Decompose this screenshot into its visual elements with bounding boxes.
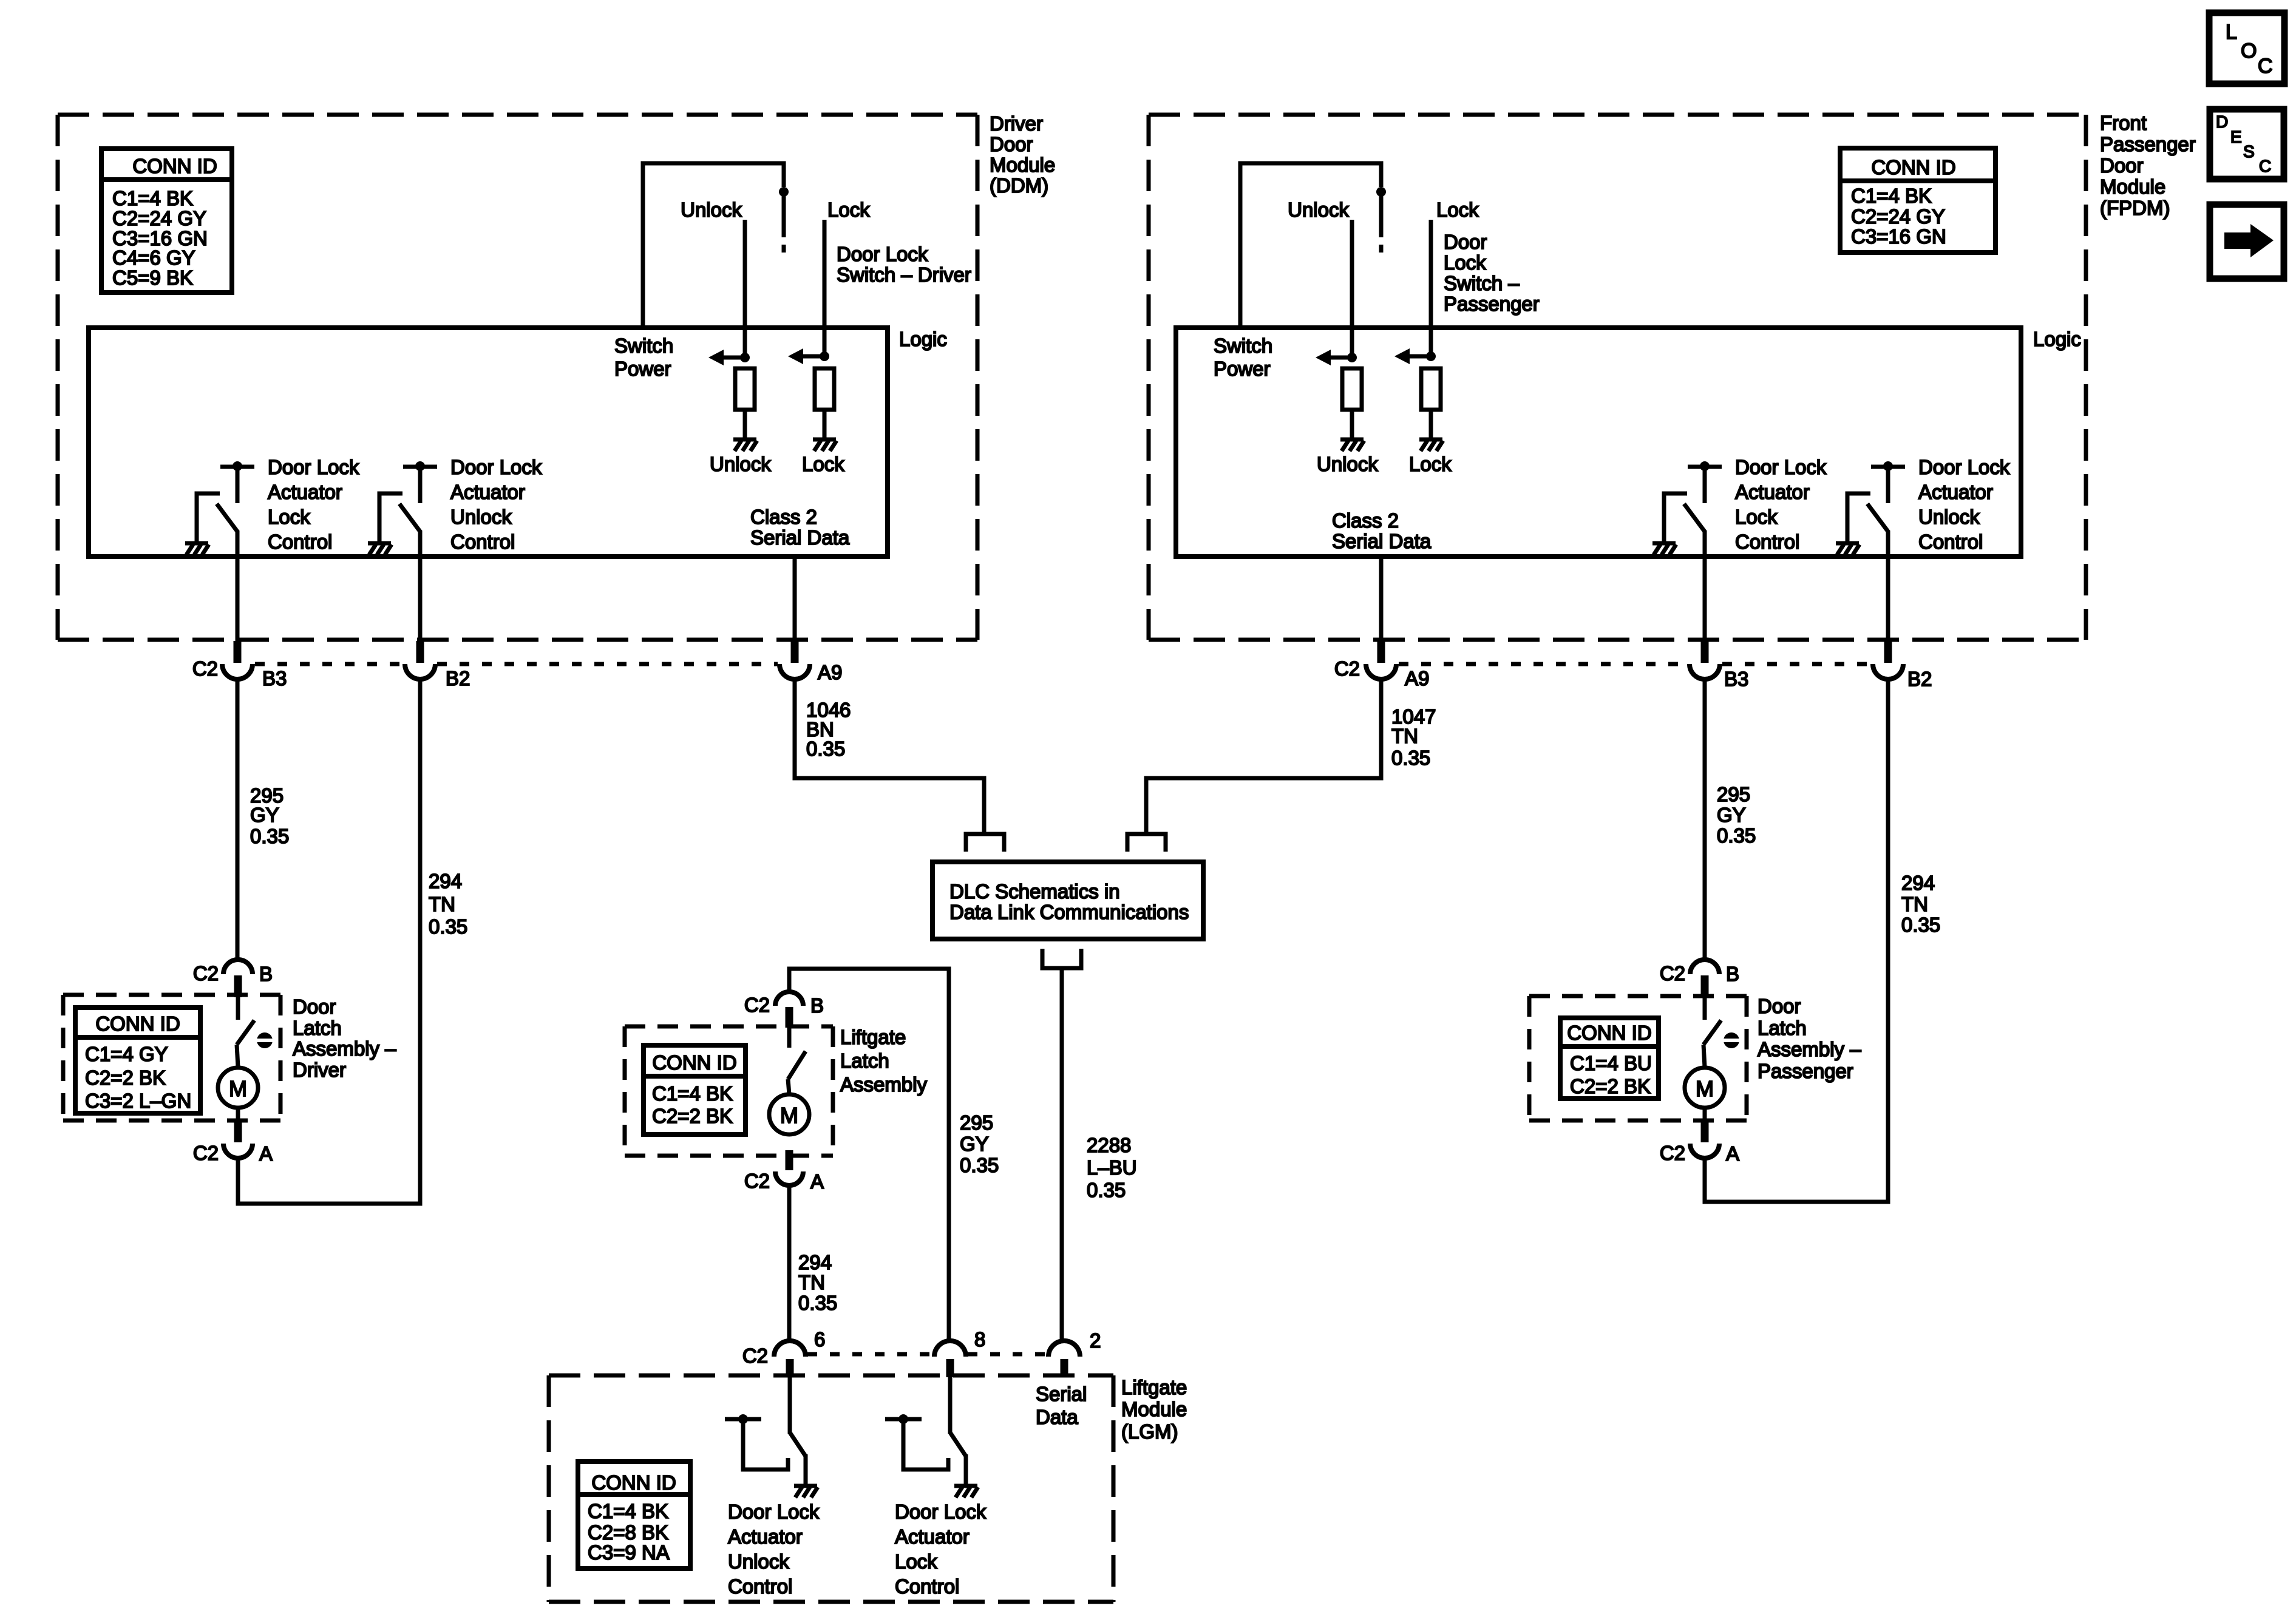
ground lock DDM (813, 439, 837, 451)
logic box DDM (89, 328, 888, 557)
wire 2288 L-BU serial to LGM (1060, 968, 1064, 1342)
svg-text:A9: A9 (1405, 667, 1429, 690)
svg-text:C2: C2 (742, 1344, 768, 1367)
svg-text:A: A (810, 1170, 824, 1193)
svg-text:Control: Control (450, 531, 515, 553)
label B3 (262, 667, 287, 690)
label Door Lock Actuator Lock Control LGM (895, 1500, 987, 1598)
connector dotted line FPDM (1399, 662, 1870, 666)
svg-text:C2: C2 (744, 994, 770, 1016)
label Lock (resistor) FPDM (1409, 453, 1452, 475)
connector pin A9 FPDM (1366, 641, 1396, 679)
switch latch driver (237, 997, 254, 1067)
svg-text:0.35: 0.35 (960, 1154, 999, 1176)
svg-text:Switch – Driver: Switch – Driver (837, 263, 971, 286)
svg-text:CONN ID: CONN ID (1871, 156, 1955, 178)
connector pin B3 DDM (222, 641, 253, 679)
svg-text:C2=8 BK: C2=8 BK (588, 1521, 668, 1544)
svg-text:TN: TN (429, 893, 455, 915)
arrow unlock sense DDM (708, 350, 750, 365)
svg-text:Latch: Latch (1758, 1017, 1807, 1039)
svg-text:TN: TN (1391, 725, 1418, 747)
svg-text:Door Lock: Door Lock (1735, 456, 1827, 478)
label Door Lock Actuator Unlock Control FPDM (1918, 456, 2010, 553)
label A9 FPDM (1405, 667, 1429, 690)
svg-text:Driver: Driver (293, 1059, 346, 1081)
svg-text:Lock: Lock (802, 453, 844, 475)
wire switch-power riser DDM (643, 163, 784, 327)
svg-text:C2=24 GY: C2=24 GY (1851, 205, 1945, 228)
svg-text:Unlock: Unlock (728, 1550, 789, 1573)
svg-text:6: 6 (814, 1328, 825, 1351)
svg-text:Liftgate: Liftgate (840, 1026, 906, 1048)
CONN ID table driver latch (75, 1008, 200, 1113)
svg-text:Door: Door (1758, 995, 1801, 1017)
label B2 (446, 667, 470, 690)
label B (liftgate latch) (810, 994, 824, 1017)
svg-text:Logic: Logic (2033, 328, 2081, 350)
svg-text:C2=2 BK: C2=2 BK (85, 1066, 166, 1089)
wire unlock contact FPDM (1350, 220, 1354, 358)
svg-text:Actuator: Actuator (268, 481, 342, 503)
svg-text:Latch: Latch (293, 1017, 342, 1039)
svg-text:Front: Front (2100, 112, 2147, 134)
wire class2 serial data DDM (793, 557, 797, 641)
svg-text:B3: B3 (262, 667, 287, 690)
label Door Lock Actuator Unlock Control LGM (728, 1500, 820, 1598)
svg-text:O: O (2241, 39, 2257, 63)
label Lock (resistor) DDM (802, 453, 844, 475)
switch rest stub DDM (782, 245, 786, 253)
svg-text:C1=4 BU: C1=4 BU (1570, 1052, 1652, 1074)
svg-text:CONN ID: CONN ID (132, 155, 217, 177)
label Door Latch Assembly - Driver (293, 995, 396, 1081)
svg-text:Serial Data: Serial Data (1332, 530, 1432, 552)
label Serial Data LGM (1036, 1383, 1087, 1428)
svg-text:Liftgate: Liftgate (1121, 1376, 1187, 1398)
label Switch Power FPDM (1214, 334, 1272, 380)
wire 295 GY driver (B3 to latch) (236, 679, 240, 960)
svg-text:B: B (1726, 963, 1739, 985)
svg-text:Actuator: Actuator (450, 481, 525, 503)
label B3 FPDM (1724, 668, 1748, 690)
node switch pivot FPDM (1376, 187, 1386, 197)
svg-text:0.35: 0.35 (1087, 1179, 1126, 1201)
label B (driver latch) (259, 963, 273, 985)
switch liftgate latch (788, 1026, 806, 1094)
svg-text:Data: Data (1036, 1406, 1078, 1428)
svg-text:8: 8 (974, 1328, 985, 1351)
svg-text:Switch: Switch (614, 334, 673, 357)
svg-text:Module: Module (1121, 1398, 1187, 1420)
wire latch A return driver (238, 1158, 423, 1204)
off-page bracket FPDM serial (1127, 834, 1166, 852)
svg-text:Lock: Lock (1735, 506, 1778, 528)
svg-text:C: C (2259, 157, 2271, 175)
off-page bracket LGM serial (1042, 949, 1081, 968)
ajar contact symbol passenger latch (1724, 1032, 1739, 1048)
svg-text:0.35: 0.35 (250, 825, 289, 847)
ajar contact symbol driver latch (257, 1032, 273, 1048)
svg-text:295: 295 (960, 1111, 993, 1134)
ground unlock DDM (733, 439, 757, 451)
transistor door-lock-actuator unlock control LGM (725, 1376, 818, 1497)
svg-text:Serial: Serial (1036, 1383, 1087, 1405)
svg-text:2: 2 (1090, 1329, 1101, 1352)
svg-text:L: L (2226, 21, 2237, 44)
svg-text:Door: Door (1444, 231, 1487, 253)
svg-text:C3=16 GN: C3=16 GN (1851, 225, 1946, 248)
svg-text:M: M (1696, 1076, 1714, 1101)
svg-text:C3=2 L–GN: C3=2 L–GN (85, 1090, 191, 1112)
svg-text:294: 294 (429, 870, 462, 892)
module LGM dashed outline (549, 1375, 1113, 1602)
CONN ID table FPDM (1840, 148, 1995, 253)
svg-text:Door: Door (2100, 154, 2144, 177)
CONN ID table DDM (101, 149, 232, 293)
label Liftgate Latch Assembly (840, 1026, 928, 1096)
svg-text:B2: B2 (1907, 668, 1932, 690)
svg-text:Passenger: Passenger (1758, 1060, 1853, 1082)
svg-text:C1=4 BK: C1=4 BK (112, 187, 193, 209)
CONN ID table passenger latch (1560, 1018, 1659, 1099)
label Lock (switch contact) DDM (827, 198, 870, 221)
wire unlock resistor to ground FPDM (1350, 410, 1354, 439)
label B (passenger latch) (1726, 963, 1739, 985)
svg-text:Driver: Driver (990, 112, 1043, 135)
svg-text:Module: Module (990, 154, 1055, 176)
resistor lock pull DDM (815, 368, 834, 410)
svg-text:0.35: 0.35 (806, 737, 845, 760)
svg-text:0.35: 0.35 (1391, 747, 1430, 769)
CONN ID table LGM (578, 1462, 690, 1568)
svg-text:C2: C2 (1334, 657, 1360, 680)
svg-text:Logic: Logic (899, 328, 947, 350)
svg-text:Switch: Switch (1214, 334, 1272, 357)
svg-text:A9: A9 (818, 661, 842, 683)
svg-text:A: A (1726, 1142, 1739, 1165)
svg-text:Door Lock: Door Lock (728, 1500, 820, 1523)
connector dotted line LGM (807, 1352, 1045, 1357)
label 295 GY 0.35 passenger (1717, 783, 1756, 847)
label Lock (switch contact) FPDM (1436, 198, 1479, 221)
svg-text:A: A (259, 1142, 273, 1165)
svg-text:D: D (2216, 112, 2228, 131)
svg-text:CONN ID: CONN ID (95, 1012, 180, 1035)
wire 294 TN liftgate (787, 1186, 792, 1342)
resistor lock pull FPDM (1421, 368, 1441, 410)
label A9 (818, 661, 842, 683)
svg-text:C2: C2 (193, 962, 219, 985)
svg-text:C2=24 GY: C2=24 GY (112, 207, 206, 229)
label 294 TN 0.35 passenger (1901, 872, 1940, 936)
label 2 (1090, 1329, 1101, 1352)
label 295 GY 0.35 liftgate (960, 1111, 999, 1176)
svg-text:Passenger: Passenger (1444, 293, 1540, 315)
svg-text:Control: Control (1735, 531, 1799, 553)
label A (passenger latch) (1726, 1142, 1739, 1165)
wire unlock resistor to ground DDM (743, 410, 747, 439)
svg-text:Latch: Latch (840, 1049, 889, 1072)
svg-text:Assembly: Assembly (840, 1073, 928, 1096)
svg-text:DLC Schematics in: DLC Schematics in (949, 880, 1120, 903)
transistor door-lock-actuator lock control DDM (185, 461, 254, 641)
svg-text:Lock: Lock (1444, 251, 1486, 274)
wire latch A return passenger (1705, 1158, 1890, 1202)
svg-text:Door Lock: Door Lock (450, 456, 542, 478)
connector pin B3 FPDM (1690, 641, 1720, 679)
label C2 (latch A passenger) (1660, 1142, 1685, 1164)
label Logic FPDM (2033, 328, 2081, 350)
svg-text:B: B (259, 963, 273, 985)
svg-text:(LGM): (LGM) (1121, 1420, 1178, 1443)
svg-text:C2: C2 (1660, 1142, 1685, 1164)
switch blade DDM (782, 192, 786, 237)
svg-text:294: 294 (798, 1251, 832, 1273)
svg-text:C2=2 BK: C2=2 BK (1570, 1075, 1651, 1097)
arrow lock sense DDM (788, 348, 829, 364)
ground lock FPDM (1419, 439, 1443, 451)
svg-text:M: M (229, 1076, 247, 1101)
svg-text:(DDM): (DDM) (990, 174, 1048, 197)
wire 1046 BN serial DDM (795, 679, 984, 834)
label Class 2 Serial Data DDM (750, 506, 850, 549)
svg-text:C5=9 BK: C5=9 BK (112, 266, 193, 289)
label 294 TN 0.35 driver (429, 870, 467, 938)
svg-text:Control: Control (895, 1575, 959, 1598)
icon LOC box (2209, 13, 2284, 84)
node switch pivot DDM (779, 187, 789, 197)
svg-text:C1=4 BK: C1=4 BK (652, 1082, 733, 1105)
label Door Latch Assembly - Passenger (1758, 995, 1861, 1082)
door latch assembly passenger dashed box (1529, 996, 1747, 1120)
label 8 (974, 1328, 985, 1351)
label Front Passenger Door Module (FPDM) (2100, 112, 2196, 219)
label 294 TN 0.35 liftgate (798, 1251, 837, 1314)
svg-text:2288: 2288 (1087, 1134, 1131, 1156)
label 1047 TN 0.35 (1391, 705, 1436, 769)
svg-text:0.35: 0.35 (429, 915, 467, 938)
transistor door-lock-actuator lock control LGM (885, 1376, 978, 1497)
svg-text:C3=9 NA: C3=9 NA (588, 1541, 670, 1564)
connector pin B2 DDM (405, 641, 435, 679)
label C2 (liftgate latch A) (744, 1170, 770, 1192)
icon DESC box (2210, 109, 2284, 179)
svg-text:Lock: Lock (1436, 198, 1479, 221)
svg-text:Unlock: Unlock (1288, 198, 1349, 221)
connector C2-A driver latch (223, 1122, 253, 1158)
svg-text:Power: Power (1214, 358, 1271, 380)
svg-text:B3: B3 (1724, 668, 1748, 690)
svg-text:B2: B2 (446, 667, 470, 690)
svg-text:0.35: 0.35 (1717, 824, 1756, 847)
ground unlock FPDM (1340, 439, 1364, 451)
label C2 (liftgate latch B) (744, 994, 770, 1016)
off-page bracket DDM serial (966, 834, 1004, 852)
motor M passenger latch (1685, 1068, 1725, 1108)
svg-text:(FPDM): (FPDM) (2100, 197, 2170, 219)
svg-text:TN: TN (798, 1271, 825, 1293)
svg-text:Door: Door (293, 995, 336, 1018)
svg-text:Unlock: Unlock (710, 453, 771, 475)
label 2288 L-BU 0.35 (1087, 1134, 1137, 1201)
svg-text:Control: Control (728, 1575, 792, 1598)
svg-text:Switch –: Switch – (1444, 272, 1520, 294)
svg-text:Actuator: Actuator (728, 1525, 803, 1548)
label Driver Door Module (DDM) (990, 112, 1055, 197)
svg-text:Door Lock: Door Lock (1918, 456, 2010, 478)
connector C2-A passenger latch (1690, 1122, 1719, 1158)
svg-text:Class 2: Class 2 (750, 506, 817, 528)
svg-text:C: C (2258, 55, 2273, 78)
label A (driver latch) (259, 1142, 273, 1165)
svg-text:C1=4 BK: C1=4 BK (588, 1500, 668, 1522)
svg-text:GY: GY (1717, 804, 1746, 826)
connector pin B2 FPDM (1873, 641, 1903, 679)
label Liftgate Module (LGM) (1121, 1376, 1187, 1443)
svg-text:Unlock: Unlock (1317, 453, 1378, 475)
connector pin 2 LGM (1048, 1341, 1080, 1377)
resistor unlock pull DDM (735, 368, 755, 410)
label Door Lock Actuator Lock Control FPDM (1735, 456, 1827, 553)
svg-text:TN: TN (1901, 893, 1928, 915)
svg-text:Door: Door (990, 133, 1033, 155)
svg-text:Module: Module (2100, 175, 2165, 198)
connector C2-A liftgate latch (775, 1150, 803, 1185)
label 295 GY 0.35 driver (250, 784, 289, 847)
svg-text:Class 2: Class 2 (1332, 509, 1399, 532)
svg-text:Unlock: Unlock (450, 506, 512, 528)
svg-text:CONN ID: CONN ID (652, 1051, 736, 1074)
label C2 (latch B passenger) (1660, 962, 1685, 985)
label Unlock (switch contact) DDM (681, 198, 742, 221)
wire 295 GY liftgate branch (789, 969, 949, 1342)
transistor door-lock-actuator unlock control FPDM (1836, 461, 1905, 641)
connector pin 6 LGM (774, 1341, 806, 1377)
wire lock resistor to ground DDM (823, 410, 827, 439)
svg-text:Passenger: Passenger (2100, 133, 2196, 155)
label C2 (latch A driver) (193, 1142, 219, 1164)
wire lock resistor to ground FPDM (1429, 410, 1433, 439)
svg-text:Door Lock: Door Lock (895, 1500, 987, 1523)
svg-text:Lock: Lock (827, 198, 870, 221)
svg-text:C2: C2 (744, 1170, 770, 1192)
svg-text:E: E (2230, 127, 2242, 146)
CONN ID table liftgate latch (644, 1045, 746, 1134)
svg-text:GY: GY (960, 1133, 989, 1155)
connector C2-B driver latch (223, 960, 253, 997)
svg-text:Control: Control (268, 531, 332, 553)
connector pin A9 DDM (779, 641, 810, 679)
switch rest stub FPDM (1379, 245, 1384, 253)
label DLC Schematics in Data Link Communications (949, 880, 1189, 923)
svg-text:CONN ID: CONN ID (1567, 1022, 1651, 1044)
connector dotted line DDM (255, 662, 778, 666)
svg-text:Lock: Lock (268, 506, 310, 528)
svg-text:Assembly –: Assembly – (293, 1037, 396, 1060)
svg-text:Actuator: Actuator (1735, 481, 1810, 503)
wire class2 serial data FPDM (1379, 557, 1384, 641)
motor M liftgate latch (769, 1094, 809, 1134)
wire 295 GY passenger (B3 to latch) (1703, 679, 1707, 960)
label C2 connector LGM (742, 1344, 768, 1367)
svg-text:L–BU: L–BU (1087, 1156, 1137, 1179)
svg-text:Data Link Communications: Data Link Communications (949, 901, 1189, 923)
svg-text:0.35: 0.35 (798, 1292, 837, 1314)
wire lock contact DDM (823, 220, 827, 356)
svg-text:C2: C2 (193, 1142, 219, 1164)
label Switch Power DDM (614, 334, 673, 380)
label Unlock (switch contact) FPDM (1288, 198, 1349, 221)
label C2 connector DDM (192, 657, 218, 680)
svg-text:Assembly –: Assembly – (1758, 1038, 1861, 1060)
wire motor to pin driver latch (236, 1107, 240, 1123)
DLC schematics box (932, 862, 1203, 939)
svg-text:Serial Data: Serial Data (750, 526, 850, 549)
motor M driver latch (218, 1068, 258, 1108)
liftgate latch assembly dashed box (625, 1026, 833, 1156)
svg-text:Control: Control (1918, 531, 1983, 553)
svg-text:C1=4 BK: C1=4 BK (1851, 185, 1932, 207)
svg-text:Unlock: Unlock (681, 198, 742, 221)
logic box FPDM (1176, 328, 2021, 557)
resistor unlock pull FPDM (1342, 368, 1362, 410)
svg-text:GY: GY (250, 804, 279, 826)
module DDM dashed outline (58, 115, 977, 640)
svg-text:CONN ID: CONN ID (591, 1471, 676, 1494)
connector C2-B liftgate latch (775, 992, 803, 1028)
label Class 2 Serial Data FPDM (1332, 509, 1432, 552)
label Door Lock Switch - Driver (837, 243, 971, 286)
svg-text:C4=6 GY: C4=6 GY (112, 246, 195, 269)
label 6 (814, 1328, 825, 1351)
label Unlock (resistor) DDM (710, 453, 771, 475)
svg-text:Power: Power (614, 358, 671, 380)
module FPDM dashed outline (1149, 115, 2086, 640)
label Door Lock Switch - Passenger (1444, 231, 1540, 315)
wire unlock contact DDM (743, 220, 747, 358)
switch latch passenger (1703, 997, 1721, 1067)
arrow lock sense FPDM (1394, 348, 1436, 364)
svg-text:C2: C2 (192, 657, 218, 680)
svg-text:Lock: Lock (1409, 453, 1452, 475)
door latch assembly driver dashed box (63, 995, 280, 1120)
arrow unlock sense FPDM (1316, 350, 1357, 365)
wire switch-power riser FPDM (1240, 163, 1381, 327)
svg-text:294: 294 (1901, 872, 1935, 894)
svg-text:C2=2 BK: C2=2 BK (652, 1105, 733, 1127)
svg-text:Actuator: Actuator (895, 1525, 970, 1548)
wire 294 TN passenger (B2 down) (1886, 679, 1890, 1202)
svg-text:S: S (2243, 142, 2255, 161)
svg-text:Actuator: Actuator (1918, 481, 1993, 503)
transistor door-lock-actuator lock control FPDM (1652, 461, 1722, 641)
icon arrow box (2210, 205, 2284, 279)
svg-text:295: 295 (1717, 783, 1750, 805)
wire 1047 TN serial FPDM (1146, 679, 1381, 834)
wire 294 TN driver (B2 down) (418, 679, 423, 1204)
label Door Lock Actuator Lock Control DDM (268, 456, 359, 553)
label Unlock (resistor) FPDM (1317, 453, 1378, 475)
wire lock contact FPDM (1429, 220, 1433, 356)
label C2 connector FPDM (1334, 657, 1360, 680)
label C2 (latch B driver) (193, 962, 219, 985)
svg-text:C1=4 GY: C1=4 GY (85, 1043, 168, 1065)
svg-text:M: M (780, 1103, 798, 1128)
svg-text:0.35: 0.35 (1901, 914, 1940, 936)
svg-text:B: B (810, 994, 824, 1017)
svg-text:C2: C2 (1660, 962, 1685, 985)
